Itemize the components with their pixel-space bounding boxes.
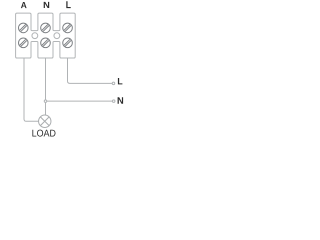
screw terminal N top [41,23,51,33]
mounting hole between A and N [32,33,38,39]
screw terminal A top [19,23,29,33]
label L right [118,78,123,84]
wire from L terminal down and right [68,58,113,83]
junction node on N wire [44,100,47,103]
open terminal circle N [112,100,115,103]
screw terminal N bottom [41,38,51,48]
screw terminal L bottom [63,38,73,48]
label N [44,2,50,8]
lamp symbol LOAD [39,115,51,127]
screw terminal L top [63,23,73,33]
label A [21,2,27,8]
wire N horizontal branch to right [47,100,113,102]
label N right [118,97,124,104]
label L [66,1,70,8]
mounting hole between N and L [54,33,60,39]
wire from N terminal down to lamp top [45,58,47,115]
terminal strip body outline [16,13,76,58]
screw terminal A bottom [19,38,29,48]
open terminal circle L [112,82,115,85]
wire from A terminal down and right to lamp [24,58,39,121]
label LOAD [32,130,55,137]
